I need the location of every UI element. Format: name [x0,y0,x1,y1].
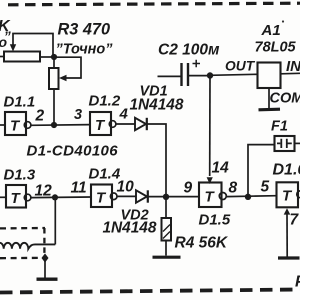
svg-text:”Точно”: ”Точно” [56,42,114,58]
svg-text:D1.6: D1.6 [273,162,301,179]
R3 wiper arrowhead [59,75,67,81]
wire C2 right lead to node C [189,75,211,77]
node F junction dot [163,194,169,200]
wire D1.1 pin2 output to D1.2 pin3 input [31,124,90,127]
svg-text:Р: Р [295,274,300,291]
crystal F1 body [275,136,295,151]
wire node C to regulator A1 [210,74,258,75]
wire D1.5 pin8 output to D1.6 pin5 input [227,195,277,198]
inverter D1.2 (Schmitt trigger) [90,112,116,135]
svg-text:A1: A1 [261,22,281,39]
wire shield to ground [44,258,46,278]
coil shield dashed screen right side [43,228,45,258]
svg-text:D1.2: D1.2 [89,93,121,110]
wire crystal F1 right lead [295,142,301,144]
inverter D1.5 (Schmitt trigger) [199,183,226,208]
svg-text:T: T [96,190,107,207]
wire A1 COM lead [268,88,270,109]
wire node A to R3 top [53,57,55,68]
bottom dashed border [0,290,300,293]
wire D1.2 pin4 to VD1 anode [116,123,135,125]
wire A1 IN lead to right edge [281,72,301,75]
svg-text:IN: IN [286,58,300,75]
svg-text:3: 3 [74,107,82,123]
ground bar at A1 COM [259,108,281,112]
svg-text:T: T [10,118,21,135]
svg-text:T: T [11,190,22,207]
svg-text:D1.3: D1.3 [4,167,36,184]
svg-text:12: 12 [35,183,53,200]
diode VD2 1N4148 [136,190,148,202]
wire VD1 cathode to node F [148,124,167,197]
node G junction dot [245,194,251,200]
inverter D1.6 (Schmitt trigger) [277,182,304,207]
coil L1 (search coil) [0,243,55,249]
svg-text:D1.5: D1.5 [199,212,231,229]
wire C2 left lead [158,75,182,77]
svg-text:78L05: 78L05 [255,40,297,56]
svg-text:COM: COM [270,91,301,107]
svg-text:C2 100м: C2 100м [158,42,220,59]
svg-text:4: 4 [119,106,129,123]
svg-text:1N4148: 1N4148 [130,97,184,114]
svg-text:D1.1: D1.1 [4,94,36,111]
svg-text:8: 8 [229,180,238,197]
node E shield ground junction dot [42,253,49,262]
wire D1.3 input stub [0,196,6,198]
wire D1.1 input stub [0,124,5,126]
inverter D1.1 (Schmitt trigger) [5,112,31,135]
svg-text:T: T [205,189,216,206]
svg-text:7: 7 [290,212,300,229]
scan speck [282,20,284,22]
svg-text:D1-CD40106: D1-CD40106 [27,143,119,160]
crystal F1 internal plates [277,139,292,148]
svg-text:T: T [282,188,293,205]
wire R3 bottom to node B [53,89,55,126]
svg-text:10: 10 [117,179,135,196]
resistor R2 (trimmer, partial at left edge) [0,52,40,62]
C2 plus sign [193,60,201,67]
node A junction dot [51,54,57,60]
resistor R4 body [162,218,172,241]
wire R3 wiper loop to node A [54,57,81,78]
wire node D down to coil L1 [54,197,56,244]
regulator A1 78L05 body [258,63,281,89]
capacitor C2 (electrolytic) plates [182,63,189,86]
R2 wiper arrowhead [10,44,16,51]
svg-text:OUT: OUT [225,59,256,74]
svg-text:о: о [0,34,8,50]
svg-text:T: T [95,117,106,134]
wire R2 wiper arm to node A [13,34,53,56]
wire D1.4 pin10 to VD2 anode [117,195,136,197]
svg-text:9: 9 [184,180,193,197]
wire node G up to crystal F1 [248,145,275,197]
svg-text:1N4148: 1N4148 [103,220,157,237]
pin14 supply arrowhead into D1.5 [207,177,213,184]
svg-text:11: 11 [71,180,87,197]
coil shield dashed screen bottom [0,257,45,260]
diode VD1 1N4148 [135,118,147,130]
svg-text:F1: F1 [271,119,288,135]
ground bar below D1.6 [278,256,300,259]
node B junction dot [51,122,57,128]
node D junction dot [52,194,58,200]
wire D1.3 pin12 output to D1.4 pin11 input [31,196,91,199]
node C junction dot [207,72,213,78]
svg-text:R4 56K: R4 56K [175,235,229,252]
top dashed border [8,3,300,5]
wire node F down to R4 [165,197,167,218]
svg-text:14: 14 [212,160,230,177]
coil shield dashed screen top [0,227,45,230]
inverter D1.3 (Schmitt trigger) [6,185,31,208]
pin7 ground arrowhead into D1.6 [284,208,291,214]
wire R4 bottom to ground [165,241,167,256]
wire R2 to node A [40,56,54,58]
svg-text:5: 5 [261,179,270,196]
ground bar below shield [37,278,58,281]
wire VD2 cathode to D1.5 pin9 input [149,196,200,198]
wire +5V rail down to D1.5 pin 14 [209,76,211,177]
svg-text:2: 2 [35,108,45,125]
resistor R3 (vertical trimmer body) [49,68,59,89]
inverter D1.4 (Schmitt trigger) [91,185,117,208]
ground bar below R4 [153,256,181,259]
svg-text:R3 470: R3 470 [58,21,111,39]
wire D1.6 pin7 to ground [286,214,288,257]
